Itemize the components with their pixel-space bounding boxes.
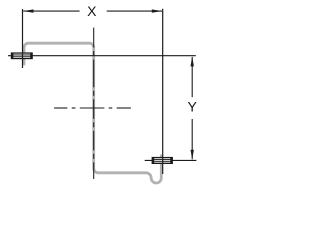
arrowhead up of Y dimension	[191, 56, 194, 66]
ferrule F2 (right crimp sleeve)	[152, 158, 172, 164]
arrowhead right of X dimension	[152, 9, 162, 12]
centerline vertical (dash-dot through wire axis)	[93, 28, 95, 179]
centerline horizontal (dash-dot mid height)	[54, 107, 131, 109]
node: top reference line (Y datum through left ferrule axis)	[8, 55, 196, 57]
arrowhead down of Y dimension	[191, 150, 194, 160]
arrowhead left of X dimension	[23, 9, 33, 12]
svg-text:X: X	[87, 3, 97, 19]
dimension line Y (lower segment)	[191, 119, 193, 159]
ferrule F1 (left crimp sleeve)	[11, 53, 32, 59]
wire (formed gray lead)	[24, 43, 161, 183]
dimension line X (right segment)	[107, 10, 162, 12]
svg-text:Y: Y	[188, 99, 198, 115]
dimension line X (left segment)	[23, 10, 79, 12]
extension line right (dimension X)	[162, 9, 164, 174]
node: bottom reference line (Y datum through right ferrule axis)	[145, 159, 197, 161]
dimension line Y (upper segment)	[191, 57, 193, 97]
extension line left (dimension X)	[22, 9, 24, 68]
